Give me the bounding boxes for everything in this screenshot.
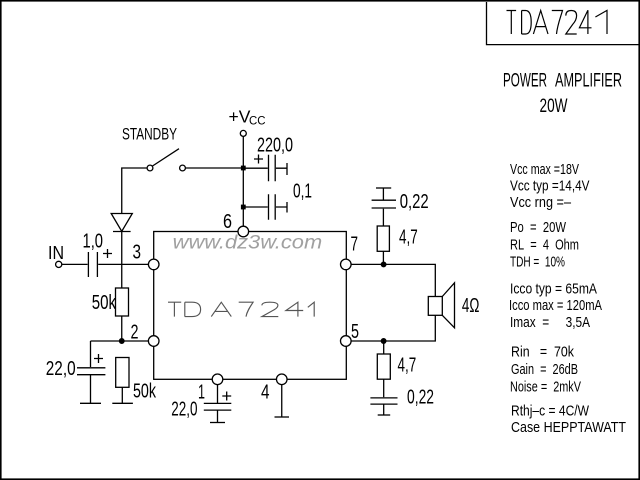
wire switch to Vcc rail xyxy=(186,167,244,169)
svg-text:20W: 20W xyxy=(540,96,568,117)
pin 5 circle xyxy=(341,336,352,347)
ground bar left 22,0 xyxy=(80,402,101,404)
capacitor C1 1,0 xyxy=(88,252,97,277)
svg-text:Imax = 3,5A: Imax = 3,5A xyxy=(510,314,590,331)
capacitor 0,1 plates xyxy=(269,194,276,220)
zobel bottom: wire and resistor 4,7 xyxy=(383,341,385,354)
wire pin5 to speaker xyxy=(351,315,435,341)
speaker LS1 xyxy=(428,297,442,316)
IC U1 TDA7241 box xyxy=(154,232,347,380)
junction square Vcc/0,1 xyxy=(241,205,246,210)
node IN terminal xyxy=(56,261,62,267)
pin 6 circle xyxy=(238,226,249,237)
svg-text:POWER: POWER xyxy=(503,71,547,92)
svg-text:CC: CC xyxy=(249,114,266,128)
wire pin4 to ground xyxy=(281,385,283,417)
svg-text:50k: 50k xyxy=(133,381,157,403)
capacitor 22,0 pin1 xyxy=(204,385,232,423)
svg-text:0,22: 0,22 xyxy=(407,387,434,409)
wire IN to C1 xyxy=(62,263,88,265)
svg-text:Rin = 70k: Rin = 70k xyxy=(511,344,574,361)
plus sign 22,0 left xyxy=(94,354,103,363)
svg-text:4,7: 4,7 xyxy=(399,227,418,249)
title text TDA7241 xyxy=(507,10,608,34)
svg-text:6: 6 xyxy=(223,211,232,233)
svg-text:Icco typ = 65mA: Icco typ = 65mA xyxy=(510,281,597,298)
svg-text:Case HEPPTAWATT: Case HEPPTAWATT xyxy=(511,419,626,436)
schematic lines xyxy=(56,130,455,422)
resistor 50k lower xyxy=(116,358,129,388)
svg-text:0,1: 0,1 xyxy=(293,181,312,203)
svg-text:IN: IN xyxy=(48,243,64,263)
svg-text:3: 3 xyxy=(133,242,142,264)
svg-text:Po = 20W: Po = 20W xyxy=(510,219,567,236)
svg-text:www.dz3w.com: www.dz3w.com xyxy=(173,232,323,254)
terminal bar 0,22 bottom xyxy=(378,414,391,416)
wire 0,22 bottom to bar xyxy=(383,405,385,416)
svg-text:Gain = 26dB: Gain = 26dB xyxy=(511,361,578,378)
junction node pin7/zobel xyxy=(381,262,386,267)
capacitor 0,22 bottom plates xyxy=(370,398,397,404)
svg-text:AMPLIFIER: AMPLIFIER xyxy=(555,71,622,92)
svg-text:Vcc rng =–: Vcc rng =– xyxy=(510,194,572,211)
ground bar 50k lower xyxy=(112,402,133,404)
svg-text:22,0: 22,0 xyxy=(46,358,76,380)
svg-text:TDH = 10%: TDH = 10% xyxy=(510,254,565,271)
svg-text:7: 7 xyxy=(351,234,359,256)
svg-text:Vcc max =18V: Vcc max =18V xyxy=(510,161,579,178)
ground bar pin1 cap xyxy=(210,422,225,424)
ground bar pin4 xyxy=(275,416,290,418)
plus sign C1 xyxy=(103,249,112,258)
svg-text:4,7: 4,7 xyxy=(398,355,417,377)
svg-text:1: 1 xyxy=(198,382,205,404)
wire pin7 to speaker xyxy=(351,264,435,296)
svg-text:Icco max = 120mA: Icco max = 120mA xyxy=(509,297,602,314)
right panel heading xyxy=(503,71,622,118)
pin 3 circle xyxy=(148,259,159,270)
wire 50k lower to ground xyxy=(121,387,123,403)
plus sign 220,0 xyxy=(254,155,263,164)
capacitor 0,22 top plates xyxy=(372,200,396,208)
svg-text:+V: +V xyxy=(229,107,251,127)
junction node 2 xyxy=(119,339,124,344)
capacitor 220,0 leads xyxy=(243,163,287,175)
svg-text:0,22: 0,22 xyxy=(400,191,429,213)
wire node2 horizontal xyxy=(91,340,149,342)
wire diode cathode to resistor xyxy=(121,232,123,289)
plus sign 22,0 pin1 xyxy=(222,392,231,401)
diode D1 xyxy=(111,214,132,232)
svg-text:4Ω: 4Ω xyxy=(462,295,480,317)
junction square Vcc/220,0 xyxy=(241,166,246,171)
right panel specs xyxy=(509,161,626,436)
junction node pin5/zobel xyxy=(381,339,386,344)
pin 2 circle xyxy=(148,336,159,347)
svg-text:5: 5 xyxy=(351,321,359,343)
svg-text:RL = 4 Ohm: RL = 4 Ohm xyxy=(510,237,579,254)
capacitor 220,0 plates xyxy=(269,155,276,182)
pin 7 circle xyxy=(341,259,352,270)
svg-text:4: 4 xyxy=(261,382,270,404)
schematic text labels xyxy=(46,107,480,421)
terminal bar 0,22 top xyxy=(376,187,391,189)
capacitor 22,0 left xyxy=(77,341,105,403)
switch STANDBY xyxy=(147,165,153,171)
svg-text:2: 2 xyxy=(131,322,139,344)
svg-text:Rthj–c = 4C/W: Rthj–c = 4C/W xyxy=(511,403,590,420)
svg-text:STANDBY: STANDBY xyxy=(122,126,177,144)
wire 0,22 top to bar xyxy=(382,188,384,200)
pin 1 circle xyxy=(212,374,223,385)
IC name text TDA7241 xyxy=(168,302,314,316)
svg-text:Noise = 2mkV: Noise = 2mkV xyxy=(510,379,581,396)
node +Vcc terminal xyxy=(240,130,246,136)
wire Vcc vertical rail xyxy=(242,137,244,227)
wire C1 to pin 3 xyxy=(98,263,148,265)
svg-text:22,0: 22,0 xyxy=(171,399,197,421)
svg-text:220,0: 220,0 xyxy=(257,135,293,157)
wire switch left to diode top xyxy=(122,168,147,214)
resistor 50k upper xyxy=(116,288,129,316)
zobel top: wire and resistor 4,7 xyxy=(382,251,384,264)
wire resistor to node 2 xyxy=(121,316,123,341)
svg-text:1,0: 1,0 xyxy=(83,231,104,253)
svg-text:Vcc typ =14,4V: Vcc typ =14,4V xyxy=(510,178,590,195)
pin 4 circle xyxy=(276,374,287,385)
title box xyxy=(487,2,640,45)
capacitor 0,1 leads xyxy=(243,202,287,213)
svg-text:50k: 50k xyxy=(92,292,117,314)
